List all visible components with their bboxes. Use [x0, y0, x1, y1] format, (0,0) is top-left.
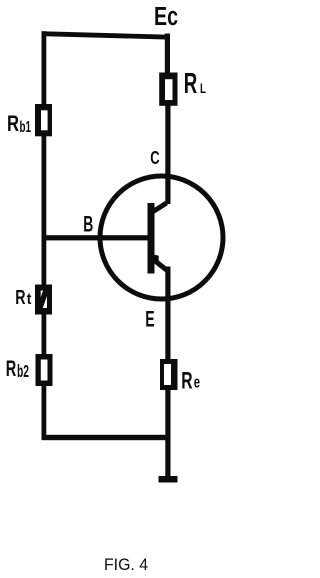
wire Rb2 to bottom rail	[42, 383, 47, 440]
wire left rail upper (top to Rb1)	[42, 31, 47, 107]
node C label	[150, 148, 159, 168]
transistor Q1 emitter stroke	[151, 257, 169, 273]
svg-text:b1: b1	[20, 119, 32, 136]
node E label	[145, 306, 154, 331]
svg-text:t: t	[27, 291, 32, 308]
transistor Q1 circle	[100, 176, 223, 299]
wire bottom rail	[42, 435, 171, 440]
resistor Rb1 value label	[7, 111, 31, 136]
svg-text:b2: b2	[17, 361, 29, 381]
wire emitter vertical to Re	[165, 267, 170, 362]
svg-text:E: E	[145, 306, 154, 331]
wire base horizontal	[43, 235, 154, 240]
svg-text:e: e	[194, 374, 200, 392]
svg-text:R: R	[15, 286, 25, 309]
transistor Q1 base bar	[148, 203, 155, 274]
svg-text:FIG. 4: FIG. 4	[104, 555, 148, 574]
node B label	[83, 212, 93, 237]
transistor Q1 emitter arrowhead	[152, 254, 159, 264]
svg-text:R: R	[184, 68, 198, 100]
wire right rail top to RL	[165, 34, 170, 76]
svg-text:R: R	[181, 368, 192, 395]
wire left rail Rb1 to base node	[42, 133, 47, 241]
svg-text:B: B	[83, 212, 93, 237]
resistor Rb1	[35, 104, 52, 136]
svg-text:C: C	[150, 148, 159, 168]
svg-text:R: R	[7, 111, 19, 136]
thermistor Rt	[35, 285, 52, 315]
resistor Rb2	[36, 354, 53, 386]
caption FIG. 4	[104, 555, 148, 574]
resistor Re	[160, 359, 178, 390]
svg-text:L: L	[200, 81, 206, 96]
wire Re to ground	[165, 388, 170, 477]
ground	[159, 476, 178, 483]
svg-text:R: R	[6, 356, 17, 381]
thermistor Rt value label	[15, 286, 31, 309]
resistor Rb2 value label	[6, 356, 29, 381]
wire left rail base node to Rt	[42, 238, 47, 288]
svg-text:Ec: Ec	[154, 3, 178, 31]
transistor Q1 collector stroke	[152, 201, 168, 214]
resistor RL	[159, 73, 177, 106]
wire top rail to Ec	[42, 31, 170, 39]
node Ec label	[154, 3, 178, 31]
resistor RL value label	[184, 68, 206, 100]
resistor Re value label	[181, 368, 200, 395]
wire Rt to Rb2	[42, 311, 47, 357]
wire RL to collector bend	[165, 103, 170, 204]
